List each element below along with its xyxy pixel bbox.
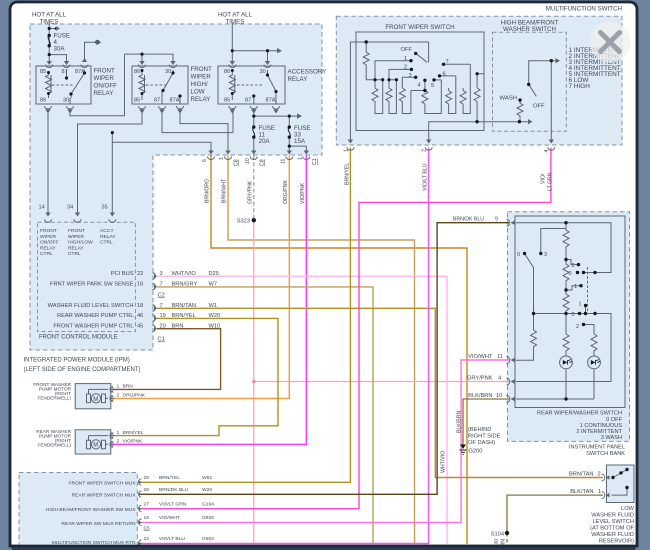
relay pin bumps	[45, 65, 280, 110]
svg-text:ORG/PNK: ORG/PNK	[123, 393, 146, 399]
svg-text:(LEFT SIDE OF ENGINE COMPARTME: (LEFT SIDE OF ENGINE COMPARTMENT)	[24, 367, 141, 373]
svg-text:7 HIGH: 7 HIGH	[569, 83, 591, 90]
wire: relay2 87A stub arrow	[179, 108, 181, 112]
wire BLK/TAN fluid switch pin1 to S104	[507, 495, 603, 533]
svg-text:REAR WIPER SW MUX RETURN: REAR WIPER SW MUX RETURN	[61, 521, 136, 527]
ladder resistor R5	[446, 76, 456, 114]
svg-text:3 WASH: 3 WASH	[601, 435, 622, 441]
washer common riser and pin4 drop	[529, 61, 556, 141]
wire BRN/TAN W1 to fluid level switch	[157, 308, 603, 477]
svg-text:20: 20	[160, 323, 166, 329]
right lamp resistor	[591, 334, 597, 356]
svg-text:1: 1	[579, 301, 582, 307]
instrument panel switch bank block fill	[508, 212, 630, 442]
wire: relay2 top feed bus	[125, 54, 174, 62]
wire: fuse branch bus with offpage arrow	[254, 116, 297, 127]
svg-text:16: 16	[137, 282, 143, 288]
left ladder resistor	[363, 42, 375, 80]
svg-text:1: 1	[598, 489, 601, 495]
svg-text:10: 10	[245, 158, 251, 164]
coil relay1	[46, 72, 52, 98]
svg-text:GRY/PNK: GRY/PNK	[467, 375, 493, 381]
coil relay2	[139, 70, 145, 100]
bank wire labels	[453, 217, 504, 538]
svg-text:HIGH/LOW: HIGH/LOW	[68, 240, 93, 246]
front motor pin bumps	[111, 387, 114, 402]
svg-text:4: 4	[544, 150, 550, 153]
svg-text:LT GRN: LT GRN	[548, 172, 554, 191]
splice S104	[505, 531, 509, 535]
svg-text:2: 2	[404, 65, 407, 71]
svg-text:WASHER SWITCH: WASHER SWITCH	[503, 26, 556, 33]
svg-text:VIO/: VIO/	[541, 173, 547, 184]
wash resistor	[517, 100, 523, 122]
wire: relay3 87 down to fuse bus	[253, 108, 255, 127]
svg-text:2: 2	[422, 149, 428, 152]
FCM pin 34 arrow and bump	[74, 213, 81, 223]
contact 5 wire	[434, 79, 441, 81]
wire lower common row	[516, 314, 611, 382]
svg-text:REAR WIPER/WASHER SWITCH: REAR WIPER/WASHER SWITCH	[537, 411, 622, 417]
bottom dark strip	[12, 545, 636, 550]
rear washer pump motor symbol	[87, 436, 109, 449]
svg-text:BRN/TAN: BRN/TAN	[569, 471, 594, 477]
svg-text:19: 19	[160, 313, 166, 319]
wire lower contact 2 to right lamp	[584, 325, 595, 335]
svg-text:M: M	[93, 397, 98, 403]
bottom-left block pin glyphs	[139, 479, 142, 547]
svg-text:BRN/DK BLU: BRN/DK BLU	[159, 487, 189, 493]
svg-text:VIO/LT BLU: VIO/LT BLU	[423, 163, 429, 191]
rear switch captions	[537, 411, 625, 457]
wire: fuse11 to IPM pin10	[253, 137, 255, 151]
svg-text:WIPER: WIPER	[40, 234, 56, 240]
svg-text:30: 30	[165, 69, 171, 75]
svg-text:0 OFF: 0 OFF	[606, 417, 622, 423]
svg-text:0: 0	[569, 271, 572, 277]
svg-text:34: 34	[67, 205, 73, 211]
svg-text:7: 7	[160, 303, 163, 309]
svg-text:W52: W52	[202, 475, 212, 481]
svg-text:C8: C8	[234, 159, 240, 166]
wire pin10 row	[516, 398, 594, 400]
svg-text:VIO/WHT: VIO/WHT	[159, 515, 180, 521]
svg-text:18: 18	[137, 303, 143, 309]
svg-text:7: 7	[446, 59, 449, 65]
svg-text:C2: C2	[158, 293, 165, 299]
high beam / front washer switch dashed box	[493, 32, 567, 131]
svg-text:WIPER: WIPER	[191, 74, 212, 81]
wire: relay1 86 down to FCM pin 14	[47, 108, 49, 213]
svg-text:85: 85	[224, 98, 230, 104]
fuse 11 element	[253, 127, 255, 137]
FCM right row pin glyphs	[153, 273, 156, 332]
wire WHT/VIO D25	[157, 276, 447, 544]
resistor chain lower section	[563, 290, 569, 314]
left lamp resistor	[563, 314, 569, 357]
wire BRN/GRY W7	[157, 287, 373, 544]
front wiper switch contact dots	[365, 40, 554, 123]
svg-text:LOW: LOW	[191, 89, 205, 96]
contact relay1: blade 87A to 30	[70, 70, 85, 104]
svg-text:FRONT: FRONT	[191, 66, 213, 73]
wire VIO/LT GRN G194 MFS pin4	[141, 148, 551, 509]
svg-text:G194: G194	[202, 501, 214, 507]
svg-text:(AT BOTTOM OF: (AT BOTTOM OF	[590, 525, 634, 531]
svg-text:G926: G926	[202, 515, 214, 521]
svg-text:S104: S104	[491, 532, 504, 538]
rail end arrow	[528, 119, 533, 124]
svg-text:22: 22	[144, 536, 150, 542]
FCM internal labels	[40, 228, 116, 257]
contact 4 wires	[411, 80, 425, 90]
contact relay3: 87 stub	[253, 96, 255, 104]
svg-text:WASH: WASH	[500, 96, 517, 102]
svg-text:S323: S323	[237, 219, 250, 225]
contact 2 wire	[389, 69, 411, 79]
svg-text:1: 1	[117, 430, 120, 436]
contact 1 wire	[375, 61, 411, 80]
svg-text:BRN/YEL: BRN/YEL	[159, 475, 180, 481]
ladder resistor R4	[422, 80, 441, 114]
svg-text:4: 4	[418, 83, 421, 89]
svg-text:BRN/YEL: BRN/YEL	[123, 430, 144, 436]
wire: relay3 top bus to 30 and offpage arrow	[232, 51, 277, 62]
svg-text:CTRL: CTRL	[40, 251, 53, 257]
left resistor	[516, 330, 537, 360]
wire BRN/DK BLU W26 bank pin9	[141, 223, 509, 495]
wire: link bus branch down to pin6 feed and FCM pin 35	[112, 133, 211, 213]
svg-text:1: 1	[404, 56, 407, 62]
svg-text:ACCY: ACCY	[100, 228, 114, 234]
svg-text:2: 2	[117, 439, 120, 445]
svg-text:87: 87	[154, 98, 160, 104]
relay: ACCESSORY RELAY	[218, 66, 285, 104]
svg-text:2: 2	[598, 471, 601, 477]
svg-text:1: 1	[298, 157, 304, 160]
svg-text:1: 1	[117, 384, 120, 390]
rear washer pump motor box	[75, 430, 111, 454]
svg-text:WASHER FLUID: WASHER FLUID	[591, 532, 634, 538]
svg-text:10: 10	[496, 393, 502, 399]
contact relay2: blade 30 to 87	[162, 70, 173, 104]
FCM pin 14 arrow and bump	[45, 213, 52, 223]
svg-text:9: 9	[495, 217, 498, 223]
wire: fuse4 branch to relay1 pin 87	[49, 55, 66, 62]
svg-text:35: 35	[102, 205, 108, 211]
wire: HOT2 feed down	[231, 23, 233, 63]
wire VIO/WHT G926 bank pin11	[141, 360, 509, 523]
svg-text:TIMES: TIMES	[226, 19, 245, 26]
svg-text:3: 3	[544, 252, 547, 258]
motor labels	[33, 382, 146, 448]
wire BRN W10 to front washer motor	[113, 329, 221, 390]
rotated IPM pin wire labels	[202, 149, 554, 550]
svg-text:BRN/TAN: BRN/TAN	[172, 303, 197, 309]
ladder resistor R3	[399, 88, 411, 114]
splice S323	[252, 218, 256, 222]
svg-text:27: 27	[144, 501, 150, 507]
lamp LED glyphs	[563, 360, 600, 365]
svg-text:3: 3	[160, 271, 163, 277]
wire contact 1 upper	[566, 286, 580, 290]
svg-text:2: 2	[576, 324, 579, 330]
wire: pin9 bus across top and down right side	[516, 223, 611, 273]
svg-text:4: 4	[498, 375, 501, 381]
svg-text:G902: G902	[202, 536, 214, 542]
wire BLK/BRN below S104 dashed	[506, 533, 508, 544]
front washer pump motor symbol	[87, 389, 109, 403]
svg-text:FRNT WIPER PARK SW SENSE: FRNT WIPER PARK SW SENSE	[50, 282, 134, 288]
svg-text:WIPER: WIPER	[94, 75, 115, 82]
low washer fluid level switch box	[607, 465, 635, 503]
svg-text:BRN/YEL: BRN/YEL	[345, 163, 351, 185]
svg-text:1: 1	[344, 149, 350, 152]
wire BRN/YEL W52 MFS pin1	[141, 148, 350, 483]
svg-text:W26: W26	[202, 487, 212, 493]
resistor chain middle section	[563, 260, 569, 291]
svg-text:30: 30	[260, 69, 266, 75]
svg-text:2 INTERMITTENT: 2 INTERMITTENT	[576, 429, 622, 435]
wire GRY/PNK solid below S323	[253, 220, 255, 544]
svg-text:BLK/BRN: BLK/BRN	[457, 411, 463, 433]
relay feed arrowheads	[45, 58, 278, 114]
svg-text:C1: C1	[158, 337, 165, 343]
svg-text:11: 11	[281, 159, 287, 164]
MFS pin arrowheads down	[348, 140, 554, 144]
svg-text:HOT AT ALL: HOT AT ALL	[218, 12, 253, 19]
svg-text:1: 1	[574, 284, 577, 290]
svg-text:BLK/BRN: BLK/BRN	[468, 393, 492, 399]
svg-text:FENDERWELL): FENDERWELL)	[37, 396, 71, 401]
svg-text:FRONT WIPER SWITCH MUX: FRONT WIPER SWITCH MUX	[68, 480, 136, 486]
bank pin glyphs (9, 11, 4, 10)	[507, 219, 510, 402]
svg-text:VIO/PNK: VIO/PNK	[300, 182, 306, 204]
svg-text:30A: 30A	[54, 46, 66, 53]
svg-text:BRN/YEL: BRN/YEL	[172, 313, 196, 319]
svg-text:OF DASH): OF DASH)	[468, 440, 495, 446]
contact 6 wire	[440, 75, 456, 77]
switch position legend	[569, 47, 621, 90]
svg-text:FRONT CONTROL MODULE: FRONT CONTROL MODULE	[39, 335, 118, 341]
gang dashed link	[587, 267, 589, 311]
svg-text:11: 11	[497, 354, 503, 360]
wire: relay2 85 to FCM pin 34	[78, 108, 143, 213]
rear wiper washer switch solid box	[515, 216, 625, 408]
svg-text:LEVEL SWITCH: LEVEL SWITCH	[592, 519, 634, 525]
fuse 4 element	[48, 35, 50, 45]
svg-text:6: 6	[443, 72, 446, 78]
front wiper switch solid box	[356, 32, 484, 131]
wire BRN/YEL W20 to rear washer motor	[113, 318, 279, 435]
svg-text:BRN: BRN	[123, 384, 134, 390]
svg-text:87: 87	[245, 98, 251, 104]
wire GRY/PNK dashed segment pin10 to S323	[253, 156, 255, 221]
svg-text:RIGHT SIDE: RIGHT SIDE	[468, 434, 501, 440]
wire: relay3 85 drop to link bus	[232, 108, 234, 133]
svg-text:RELAY: RELAY	[94, 90, 114, 97]
bottom-left connector block fill	[19, 473, 137, 550]
svg-text:30: 30	[63, 98, 69, 104]
washer common end arrow	[556, 58, 561, 63]
svg-text:M: M	[93, 443, 98, 449]
svg-text:2: 2	[117, 393, 120, 399]
svg-text:14: 14	[39, 205, 45, 211]
svg-text:G200: G200	[469, 449, 483, 455]
wire VIO/LT BLU G902 MFS pin2	[141, 148, 429, 544]
svg-text:1 CONTINUOUS: 1 CONTINUOUS	[580, 423, 623, 429]
svg-text:87A: 87A	[266, 98, 276, 104]
IPM block fill (L-shape)	[30, 24, 322, 350]
svg-text:MULTIFUNCTION SWITCH: MULTIFUNCTION SWITCH	[546, 6, 622, 13]
rear switch contact dots	[523, 221, 597, 401]
svg-text:FRONT WASHER PUMP CTRL: FRONT WASHER PUMP CTRL	[53, 323, 133, 329]
ladder resistor R2	[386, 80, 396, 114]
svg-text:INSTRUMENT PANEL: INSTRUMENT PANEL	[569, 445, 625, 451]
svg-text:HIGH BEAM/FRONT WASHER SW MUX: HIGH BEAM/FRONT WASHER SW MUX	[46, 507, 136, 513]
svg-text:VIO/WHT: VIO/WHT	[468, 354, 493, 360]
bottom rail to pin2 and wash resistor	[429, 122, 528, 141]
contact 7 wire	[444, 63, 471, 65]
svg-text:6: 6	[202, 159, 208, 162]
svg-text:46: 46	[137, 313, 143, 319]
resistor chain top section	[563, 223, 569, 260]
svg-text:W20: W20	[209, 313, 221, 319]
svg-text:ORG/PNK: ORG/PNK	[283, 180, 289, 204]
bottom-left block row labels	[46, 475, 214, 546]
svg-text:W10: W10	[209, 323, 221, 329]
svg-text:OFF: OFF	[401, 47, 413, 53]
svg-text:CTRL: CTRL	[100, 240, 113, 246]
svg-text:HOT AT ALL: HOT AT ALL	[32, 12, 67, 19]
svg-text:FRONT: FRONT	[94, 68, 116, 75]
wire lower contact 1 stub	[585, 306, 587, 314]
svg-text:29: 29	[144, 475, 150, 481]
svg-text:(BEHIND: (BEHIND	[468, 427, 491, 433]
offpage arrowheads	[56, 26, 302, 119]
svg-text:BLK/TAN: BLK/TAN	[570, 489, 593, 495]
svg-text:CTRL: CTRL	[68, 251, 81, 257]
svg-text:5: 5	[431, 83, 434, 89]
fluid switch labels	[569, 471, 635, 544]
FCM top pin numbers	[39, 205, 108, 211]
wire GRY/PNK branch to switch bank pin 4	[254, 381, 509, 383]
front wiper switch position labels	[401, 47, 449, 89]
ladder resistor R1	[372, 80, 383, 114]
svg-text:RELAY: RELAY	[191, 96, 211, 103]
svg-text:45: 45	[137, 323, 143, 329]
svg-text:RELAY: RELAY	[288, 76, 308, 83]
IPM bottom pin bumps	[208, 157, 310, 160]
svg-text:INTEGRATED POWER MODULE (IPM): INTEGRATED POWER MODULE (IPM)	[24, 358, 130, 364]
lamp circles	[560, 356, 573, 369]
svg-text:RELAY: RELAY	[68, 245, 84, 251]
svg-text:LOW: LOW	[621, 506, 635, 512]
svg-text:RESERVOIR): RESERVOIR)	[599, 538, 634, 544]
contact relay2: 87A stub	[179, 96, 181, 104]
junction GRY/PNK branch	[252, 380, 256, 384]
svg-text:D25: D25	[209, 271, 219, 277]
svg-text:FRONT WIPER SWITCH: FRONT WIPER SWITCH	[385, 24, 454, 31]
svg-text:ON/OFF: ON/OFF	[94, 83, 118, 90]
wire: relay2 87A to IPM pin1 BRN/WHT	[180, 108, 228, 151]
svg-text:BRN/GRY: BRN/GRY	[172, 282, 198, 288]
svg-text:WIPER: WIPER	[68, 234, 84, 240]
fluid switch pin glyphs	[602, 474, 605, 499]
svg-text:86: 86	[224, 69, 230, 75]
relay: FRONT WIPER HIGH/LOW RELAY	[132, 66, 188, 104]
wire: fuse4 to relay1 pin 85	[48, 55, 50, 62]
svg-text:ON/OFF: ON/OFF	[40, 240, 58, 246]
svg-text:C8: C8	[260, 159, 266, 166]
ground G200 symbol	[460, 445, 467, 455]
wire BRN/WHT pin1 C8	[228, 156, 415, 545]
multifunction switch block fill	[336, 16, 622, 145]
svg-text:7: 7	[160, 282, 163, 288]
wire contact 3 riser	[541, 229, 566, 254]
svg-text:2: 2	[572, 263, 575, 269]
svg-text:86: 86	[134, 69, 140, 75]
left switch blade	[525, 254, 534, 331]
rear motor pin bumps	[111, 433, 114, 448]
svg-text:16: 16	[144, 515, 150, 521]
OFF blade	[416, 42, 429, 63]
svg-text:VIO/LT BLU: VIO/LT BLU	[159, 536, 185, 542]
wire: relay1 87A up and right to offpage arrow	[85, 42, 97, 62]
wire ORG/PNK pin11 to front washer motor	[113, 156, 290, 399]
wire: relay2 87 to link bus	[162, 108, 233, 133]
svg-text:22: 22	[137, 271, 143, 277]
svg-text:3: 3	[409, 73, 412, 79]
wire BLK/BRN bank pin10 to G200	[463, 399, 509, 445]
svg-text:FENDERWELL): FENDERWELL)	[37, 443, 71, 448]
svg-text:W1: W1	[209, 303, 218, 309]
svg-text:85: 85	[134, 98, 140, 104]
svg-text:C1: C1	[312, 158, 318, 165]
svg-text:RELAY: RELAY	[100, 234, 116, 240]
ladder resistor R6	[460, 64, 470, 113]
svg-text:SWITCH BANK: SWITCH BANK	[586, 451, 625, 457]
svg-text:BRN/ORG: BRN/ORG	[205, 179, 211, 203]
svg-text:W7: W7	[209, 282, 218, 288]
svg-text:86: 86	[40, 98, 46, 104]
node links at 79.7	[375, 79, 396, 81]
wire: HOT1 feed down through fuse 4	[48, 23, 50, 55]
FCM row labels	[48, 219, 250, 343]
svg-text:BRN/DK BLU: BRN/DK BLU	[453, 217, 484, 223]
svg-text:RELAY: RELAY	[40, 245, 56, 251]
MFS pin bumps	[347, 147, 555, 150]
svg-text:BRN/WHT: BRN/WHT	[222, 178, 228, 203]
washer switch blade	[529, 84, 537, 96]
wire: fuse33 to IPM pin11 and pin1	[289, 137, 306, 151]
coil relay3	[229, 70, 235, 100]
fluid switch internals	[612, 470, 628, 496]
svg-text:0: 0	[572, 312, 575, 318]
wire: relay1 30 down right and up to relay2 feed bus	[70, 54, 125, 116]
svg-text:15A: 15A	[294, 138, 306, 145]
svg-text:WASHER FLUID: WASHER FLUID	[591, 512, 634, 518]
relay: FRONT WIPER ON/OFF RELAY	[36, 66, 91, 104]
svg-text:87: 87	[62, 69, 68, 75]
svg-text:C5: C5	[144, 526, 151, 532]
svg-text:VIO/PNK: VIO/PNK	[123, 439, 144, 445]
svg-text:WASHER FLUID LEVEL SWITCH: WASHER FLUID LEVEL SWITCH	[48, 303, 134, 309]
svg-text:20A: 20A	[259, 138, 271, 145]
close button	[590, 22, 631, 63]
FCM pin 35 arrow and bump	[109, 213, 116, 223]
junction dots top-left	[48, 27, 291, 148]
